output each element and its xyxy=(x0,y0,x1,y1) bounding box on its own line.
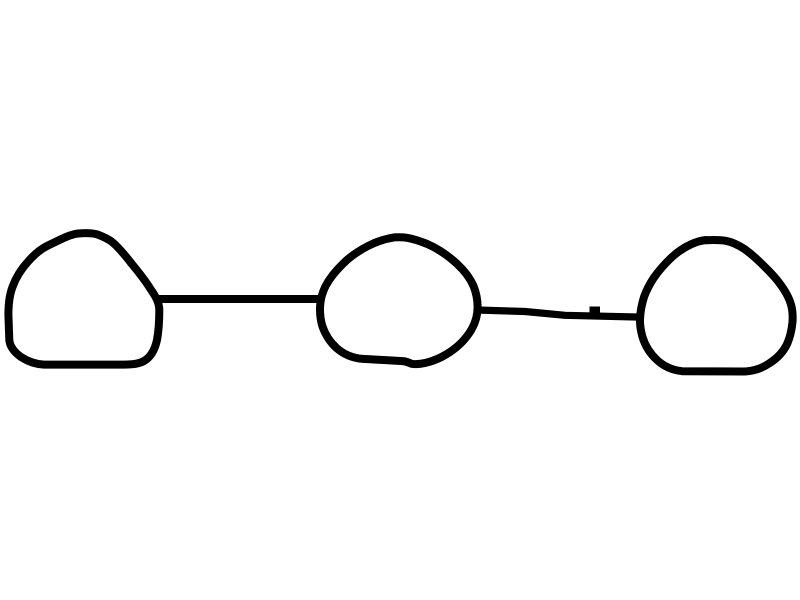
gasket port outline 1 (left blob) xyxy=(8,233,159,364)
connector bar 2 (between port 2 and port 3, slight downward slope) xyxy=(477,310,644,317)
alignment notch on connector bar 2 xyxy=(590,307,601,316)
connector bar 1 (between port 1 and port 2) xyxy=(155,295,322,303)
gasket port outline 3 (right blob) xyxy=(640,240,793,372)
gasket port outline 2 (middle blob) xyxy=(320,237,478,364)
